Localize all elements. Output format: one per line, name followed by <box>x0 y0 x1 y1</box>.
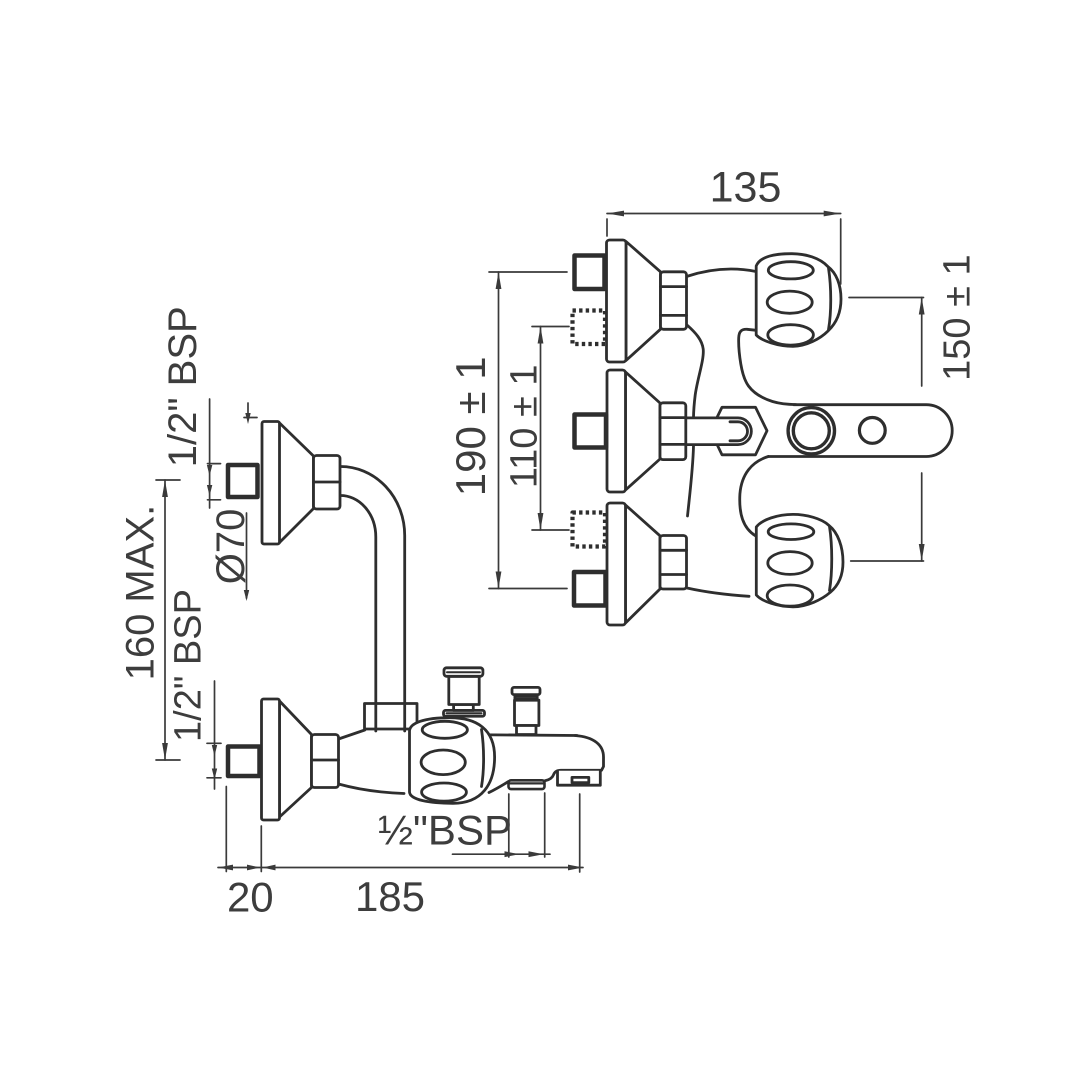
wire: pipe elbow outer edge <box>340 466 405 731</box>
arrow 160 top <box>162 480 168 497</box>
svg-text:110 ± 1: 110 ± 1 <box>504 364 546 488</box>
leader top 1/2 BSP <box>209 399 211 508</box>
diverter cap <box>444 668 483 677</box>
dim 110 lines <box>532 326 569 328</box>
arrow 110 top <box>538 327 544 344</box>
spout stem (tube) <box>687 418 752 445</box>
body top edge <box>450 735 577 736</box>
shower outlet neck <box>517 726 537 735</box>
arrows bottom BSP leader <box>212 745 217 756</box>
stem inner cap <box>730 422 748 441</box>
leader O70 <box>246 513 248 598</box>
middle union hex <box>660 403 686 460</box>
bottom union nipple <box>574 572 606 606</box>
bottom union nipple <box>228 747 260 777</box>
shower outlet subcap <box>515 694 537 698</box>
bottom knob (front) <box>756 514 843 606</box>
C-curve: bar to bottom knob <box>740 456 769 535</box>
arrow 185 right <box>568 865 583 871</box>
diverter base <box>444 710 485 716</box>
diverter neck <box>454 705 474 711</box>
top hidden nipple (dashed) <box>573 311 606 345</box>
aerator outer ring <box>788 408 834 454</box>
knob grip ellipse 3 <box>422 783 467 801</box>
dim 135 line <box>607 213 841 215</box>
bottom union flange <box>262 699 280 820</box>
arrows 20 <box>247 865 260 871</box>
diverter body <box>449 676 479 704</box>
sag: bottom hex to bottom knob <box>687 588 749 596</box>
arrow 190 top <box>496 272 502 289</box>
svg-text:Ø70: Ø70 <box>209 509 253 585</box>
arrow 135 left <box>607 211 624 217</box>
arrow 150 bottom <box>919 544 925 561</box>
aerator inner rect <box>572 777 589 782</box>
arrow 150 top <box>919 298 925 315</box>
arrow O70 <box>244 590 249 601</box>
half BSP dim line <box>453 853 551 855</box>
top union hex <box>661 272 687 330</box>
pipe nut <box>365 704 418 730</box>
dim 160 MAX line <box>164 480 166 760</box>
bottom knob ellipse 1 <box>768 524 814 540</box>
svg-text:½"BSP: ½"BSP <box>378 807 512 854</box>
top union nipple <box>228 465 258 497</box>
bottom hidden nipple (dashed) <box>573 513 606 547</box>
arrow 110 bottom <box>538 513 544 530</box>
small wall arrow <box>247 403 249 416</box>
middle union nipple <box>575 415 607 448</box>
spout nose <box>545 736 604 781</box>
top union hex nut <box>314 456 341 510</box>
arrow 160 bottom <box>162 743 168 760</box>
bottom union hex nut <box>312 735 339 788</box>
wire: pipe elbow inner edge <box>340 495 376 731</box>
arrowheads <box>162 211 925 871</box>
trunk left edge lower <box>688 446 694 516</box>
bottom union hex <box>660 536 687 590</box>
svg-text:135: 135 <box>710 164 782 212</box>
spout bar (front view) <box>769 405 953 457</box>
arrow 190 bottom <box>496 572 502 589</box>
bottom main dim line 185/20 <box>218 867 583 869</box>
main knob (side view) <box>410 718 495 804</box>
svg-text:20: 20 <box>227 874 274 921</box>
spout aerator block <box>558 771 601 785</box>
shower outlet cap <box>512 687 540 694</box>
svg-text:150 ± 1: 150 ± 1 <box>937 254 979 381</box>
top union cone <box>626 242 661 361</box>
knob grip ellipse 2 <box>421 750 465 775</box>
svg-text:1/2" BSP: 1/2" BSP <box>161 306 205 467</box>
underside from knob to pad <box>489 782 509 793</box>
bottom union flange <box>607 503 626 625</box>
shower outlet pad <box>509 780 545 789</box>
dim 190 lines <box>489 271 567 273</box>
top knob (front) <box>756 254 841 347</box>
arrows half BSP <box>505 851 520 857</box>
arrows top BSP leader <box>207 465 212 476</box>
top union cone <box>279 423 314 544</box>
arrow wall top <box>245 413 250 424</box>
top knob ellipse 2 <box>767 291 812 313</box>
bottom union cone <box>626 505 661 623</box>
arrow 185 left <box>218 865 233 871</box>
trunk left edge upper <box>687 325 703 418</box>
bottom knob ellipse 2 <box>768 552 812 575</box>
svg-text:190 ± 1: 190 ± 1 <box>447 356 494 496</box>
leader bottom 1/2 BSP <box>214 681 216 789</box>
svg-text:1/2" BSP: 1/2" BSP <box>168 589 210 742</box>
bottom knob ellipse 3 <box>767 585 813 606</box>
top knob ellipse 3 <box>768 325 814 345</box>
top union nipple <box>575 256 605 290</box>
dim 150 lines <box>849 297 924 299</box>
swoosh: trunk to spout bar <box>739 329 796 404</box>
knob face line <box>482 730 484 787</box>
middle union cone <box>626 372 661 490</box>
svg-text:185: 185 <box>355 873 425 920</box>
shower outlet body <box>515 700 539 725</box>
aerator inner ring <box>793 413 829 449</box>
bottom extension lines <box>225 787 227 872</box>
top arm upper edge <box>687 269 757 276</box>
top union flange <box>262 422 280 545</box>
bottom union cone <box>280 701 312 817</box>
top knob ellipse 1 <box>768 262 813 279</box>
spout hex base <box>711 407 768 455</box>
knob grip ellipse 1 <box>422 721 467 738</box>
top union flange <box>607 240 627 362</box>
arrow 135 right <box>824 211 841 217</box>
body neck left edges <box>339 730 365 739</box>
middle union flange <box>607 370 626 492</box>
svg-text:160 MAX.: 160 MAX. <box>119 505 163 681</box>
small hole <box>859 418 885 444</box>
